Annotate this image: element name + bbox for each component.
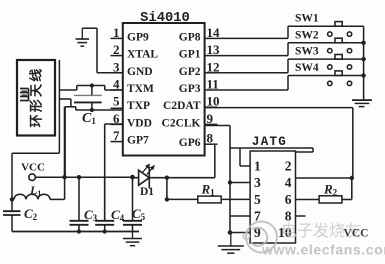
svg-text:5: 5 (113, 94, 120, 109)
svg-text:R1: R1 (201, 182, 216, 198)
svg-text:8: 8 (207, 131, 214, 146)
svg-text:8: 8 (285, 209, 292, 224)
svg-text:C4: C4 (111, 207, 125, 223)
svg-text:C2DAT: C2DAT (163, 100, 201, 112)
svg-text:9: 9 (207, 111, 214, 126)
svg-text:2: 2 (113, 42, 120, 57)
svg-text:3: 3 (254, 175, 261, 190)
svg-text:GP8: GP8 (179, 31, 201, 43)
svg-text:C3: C3 (84, 207, 98, 223)
svg-text:GP1: GP1 (179, 49, 201, 61)
svg-text:GND: GND (127, 66, 153, 78)
svg-text:VDD: VDD (127, 117, 152, 129)
svg-text:4: 4 (285, 175, 292, 190)
svg-text:VCC: VCC (21, 162, 45, 174)
svg-text:GP3: GP3 (179, 83, 201, 95)
svg-text:C2: C2 (24, 206, 38, 222)
svg-text:6: 6 (285, 192, 292, 207)
svg-text:SW3: SW3 (295, 46, 319, 58)
svg-text:C5: C5 (132, 206, 146, 222)
svg-text:XTAL: XTAL (127, 49, 158, 61)
svg-text:JATG: JATG (252, 135, 287, 149)
svg-text:VCC: VCC (344, 228, 369, 240)
svg-text:GP6: GP6 (179, 137, 201, 149)
svg-text:GP9: GP9 (127, 31, 149, 43)
svg-text:1: 1 (254, 159, 261, 174)
svg-text:环形天线: 环形天线 (29, 67, 44, 128)
svg-text:SW4: SW4 (295, 62, 319, 74)
svg-text:TXP: TXP (127, 100, 150, 112)
svg-text:10: 10 (207, 94, 220, 109)
svg-text:C1: C1 (82, 111, 96, 126)
svg-text:L1: L1 (29, 183, 41, 198)
svg-text:SW2: SW2 (295, 29, 319, 41)
svg-text:11: 11 (207, 77, 219, 92)
svg-text:www.elecfans.com: www.elecfans.com (261, 242, 385, 258)
svg-text:5: 5 (254, 192, 261, 207)
svg-text:GP2: GP2 (179, 66, 201, 78)
svg-text:Si4010: Si4010 (140, 10, 190, 26)
svg-text:TXM: TXM (127, 83, 154, 95)
svg-text:SW1: SW1 (295, 13, 319, 25)
svg-text:GP7: GP7 (127, 135, 149, 147)
svg-text:C2CLK: C2CLK (162, 117, 201, 129)
svg-text:R2: R2 (323, 182, 338, 198)
svg-text:7: 7 (113, 128, 120, 143)
svg-text:D1: D1 (140, 186, 154, 198)
svg-text:2: 2 (285, 159, 292, 174)
svg-text:1: 1 (113, 25, 120, 40)
